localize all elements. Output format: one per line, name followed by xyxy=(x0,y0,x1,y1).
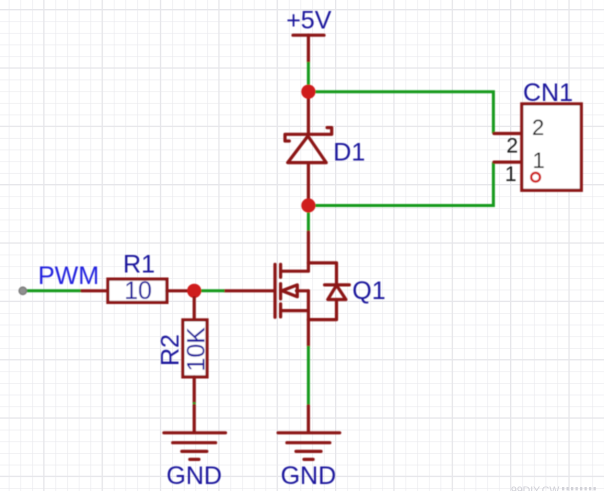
pin 1 indicator circle xyxy=(531,173,540,182)
node B junction xyxy=(301,198,315,212)
wire Q1 source to GND xyxy=(307,346,310,406)
transistor Q1 (N-MOSFET with body diode) xyxy=(225,232,350,346)
svg-text:+5V: +5V xyxy=(286,7,332,35)
resistor R1 xyxy=(82,279,189,302)
node A junction xyxy=(301,85,315,99)
svg-text:10: 10 xyxy=(124,277,152,305)
ground (left) xyxy=(164,406,226,460)
svg-text:R1: R1 xyxy=(123,251,155,279)
wire R2 to GND xyxy=(193,402,196,405)
power symbol +5V xyxy=(293,35,324,62)
diode D1 (zener) xyxy=(285,92,332,199)
net port PWM (gray dot) xyxy=(19,287,26,294)
svg-text:GND: GND xyxy=(166,462,222,490)
svg-text:10K: 10K xyxy=(183,327,211,372)
wire PWM input xyxy=(26,289,82,292)
svg-text:1: 1 xyxy=(505,163,517,186)
svg-text:PWM: PWM xyxy=(38,262,99,290)
resistor R2 xyxy=(183,298,207,403)
wire node A to CN1 pin 2 xyxy=(308,92,493,134)
wire node B to CN1 pin 1 xyxy=(308,162,493,205)
connector CN1 xyxy=(494,104,581,190)
svg-text:CN1: CN1 xyxy=(523,79,573,107)
svg-text:99DIY.CW: 99DIY.CW xyxy=(511,485,559,491)
wire +5V to node A xyxy=(307,62,310,86)
svg-text:2: 2 xyxy=(532,115,544,140)
svg-text:D1: D1 xyxy=(333,139,365,167)
svg-text:1: 1 xyxy=(533,148,545,173)
ground (right) xyxy=(278,406,340,460)
svg-text:GND: GND xyxy=(281,462,337,490)
node C junction xyxy=(187,284,201,298)
svg-text:Q1: Q1 xyxy=(352,277,385,305)
svg-text:R2: R2 xyxy=(157,334,185,366)
svg-text:2: 2 xyxy=(506,135,518,158)
wire node C to Q1 gate xyxy=(201,289,225,292)
wire node B to Q1 drain xyxy=(307,206,310,233)
